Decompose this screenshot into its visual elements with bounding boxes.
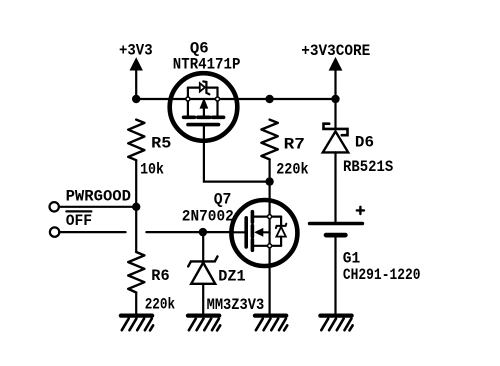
ground below Q7 (255, 316, 287, 331)
wire R7 bottom lead (269, 159, 271, 181)
Q7 pin source (268, 244, 272, 248)
Q7 bulk arrow (263, 231, 270, 233)
svg-text:DZ1: DZ1 (218, 267, 245, 285)
Q7 body diode lead top (280, 217, 282, 225)
D6 lead top (334, 99, 336, 129)
G1 negative plate (326, 233, 345, 238)
svg-text:OFF: OFF (66, 212, 92, 230)
node junction R7 top (265, 95, 273, 103)
DZ1 lead bottom (202, 284, 204, 314)
svg-text:+3V3: +3V3 (119, 41, 153, 59)
resistor R7 (261, 120, 277, 160)
D6 triangle (323, 131, 348, 152)
wire PWRGOOD to R5/R6 node (59, 206, 136, 208)
Q6 pin drain (216, 97, 220, 101)
Q6 gate bar (188, 123, 219, 127)
svg-text:R5: R5 (151, 134, 171, 152)
Q6 body diode cathode bar (203, 81, 209, 94)
svg-text:D6: D6 (355, 134, 374, 152)
power symbol +3V3 (130, 57, 143, 99)
terminal OFF (50, 227, 59, 236)
G1 positive plate (310, 222, 363, 226)
ground below R6 (121, 316, 153, 331)
svg-text:R6: R6 (151, 267, 169, 285)
Q7 body diode lead bottom (280, 237, 282, 246)
node junction Q6 gate / R7 / Q7 drain (265, 177, 273, 185)
transistor Q7 2N7002 (231, 200, 297, 266)
svg-text:220k: 220k (276, 160, 309, 178)
Q6 bulk arrow (203, 108, 205, 117)
svg-text:220k: 220k (145, 296, 176, 314)
G1 lead bottom (334, 235, 336, 314)
svg-text:G1: G1 (343, 250, 360, 268)
svg-text:2N7002: 2N7002 (182, 207, 234, 225)
transistor Q6 NTR4171P (170, 73, 238, 141)
node junction OFF / DZ1 / Q7 gate (199, 228, 207, 236)
Q7 body diode triangle (276, 227, 285, 237)
Q6 body diode loop wires (188, 86, 200, 88)
wire R5 bottom to PWRGOOD node (135, 160, 137, 207)
node junction PWRGOOD / R5 / R6 (132, 203, 140, 211)
Q7 top stub (252, 216, 281, 218)
power symbol +3V3CORE (329, 57, 343, 99)
Q6 body diode triangle (200, 83, 205, 91)
terminal PWRGOOD (50, 202, 59, 211)
Q6 right riser (216, 88, 218, 118)
resistor R5 (128, 120, 144, 161)
G1 plus sign (357, 209, 364, 211)
DZ1 triangle (191, 263, 215, 284)
DZ1 cathode bar with hooks (188, 256, 217, 266)
wire OFF left segment (breaks at R6 crossover) (59, 231, 125, 233)
Q7 bottom stub (252, 245, 281, 247)
Q6 pin source (186, 97, 190, 101)
Q7 channel dashes (251, 212, 255, 223)
svg-text:10k: 10k (140, 160, 164, 178)
svg-text:R7: R7 (284, 136, 305, 154)
Q6 left riser (187, 88, 189, 118)
DZ1 lead top (202, 232, 204, 261)
svg-text:RB521S: RB521S (343, 158, 394, 176)
node junction D6 top (331, 95, 339, 103)
wire R6 bottom lead (135, 293, 137, 314)
schottky diode D6 (323, 99, 348, 222)
svg-text:NTR4171P: NTR4171P (173, 55, 241, 73)
ground below G1 (320, 316, 352, 331)
Q7 gate lead (232, 231, 246, 233)
zener diode DZ1 (188, 232, 217, 314)
battery G1 (310, 207, 364, 314)
node junction +3V3 / R5 (132, 95, 140, 103)
Q7 pin drain (268, 215, 272, 219)
D6 lead bottom (334, 152, 336, 221)
wire Q7 drain-source column to ground (269, 182, 271, 314)
D6 cathode bar with schottky hooks (324, 124, 348, 136)
svg-text:+3V3CORE: +3V3CORE (301, 42, 370, 60)
ground below DZ1 (188, 316, 220, 331)
wire top rail (136, 98, 335, 100)
Q6 gate lead (203, 125, 205, 141)
svg-text:MM3Z3V3: MM3Z3V3 (207, 296, 265, 314)
svg-text:CH291-1220: CH291-1220 (343, 266, 421, 284)
Q7 body diode cathode bar (276, 224, 286, 228)
Q7 gate bar (244, 218, 248, 247)
wire Q6 gate to R7/Q7 node (204, 141, 270, 182)
wire OFF right segment to Q7 gate (146, 231, 231, 233)
wire R6 top lead (135, 207, 137, 252)
resistor R6 (128, 252, 144, 293)
Q6 channel dashes (184, 116, 195, 120)
svg-text:Q7: Q7 (214, 190, 232, 208)
svg-text:PWRGOOD: PWRGOOD (66, 188, 131, 206)
